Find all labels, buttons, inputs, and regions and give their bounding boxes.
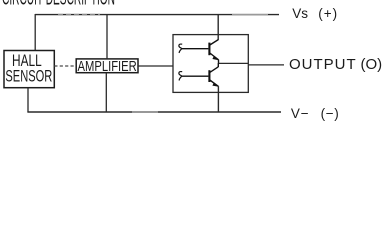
svg-text:AMPLIFIER: AMPLIFIER [77,57,136,74]
wire: amplifier bottom to V- rail [105,73,107,113]
Q2 base squiggle [179,72,182,81]
svg-text:(O): (O) [361,56,383,73]
svg-text:V−: V− [291,106,310,121]
title CIRCUIT DESCRIPTION (clipped at top) [2,0,115,10]
Q2 base wire [181,75,208,77]
Q1 base squiggle [179,44,182,53]
Q2 emitter [210,80,219,86]
Q1 base wire [181,48,208,50]
wire: rail faded segment [58,14,100,16]
Q2 collector [210,67,219,73]
Q1 base bar [208,43,210,56]
Q1 emitter drop to output node [218,60,220,64]
wire: rail to amplifier top [106,15,108,59]
svg-text:(+): (+) [318,6,338,21]
dashed wire: hall sensor to amplifier [54,65,76,67]
svg-text:Vs: Vs [292,6,308,21]
wire: rail down to Q1 collector [217,15,219,40]
Q2 base bar [208,70,210,82]
wire: hall sensor to V- rail [27,88,29,113]
wire: Q2 emitter to V- rail [217,86,219,112]
wire: output line (inside output stage) [218,62,249,64]
wire: rail corner down to hall sensor [34,14,36,51]
wire: amplifier output to output stage [138,65,173,67]
wire: V- rail faded segment [132,111,158,113]
wire: V- rail [27,111,281,113]
Q1 emitter arrow [212,56,218,60]
wire: output line (to OUTPUT label) [248,64,284,66]
Q1 emitter [210,53,219,60]
Q1 collector [210,40,219,45]
Q2 collector rise to output node [217,63,219,67]
transistor Q2 (lower NPN) [179,63,219,87]
transistor Q1 (upper NPN) [179,40,219,64]
svg-text:OUTPUT: OUTPUT [289,56,357,73]
output stage box [173,35,248,93]
svg-text:SENSOR: SENSOR [5,66,52,85]
Q2 emitter arrow [212,83,218,87]
svg-text:CIRCUIT DESCRIPTION: CIRCUIT DESCRIPTION [2,0,115,10]
amplifier block [76,57,138,74]
hall sensor block [4,51,54,88]
svg-text:(−): (−) [321,106,340,121]
wire: Vs(+) supply rail [35,14,279,16]
